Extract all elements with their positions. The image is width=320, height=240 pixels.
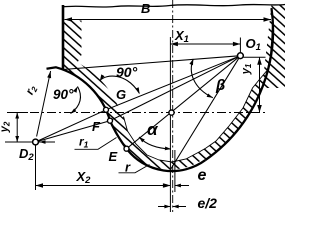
- right wall arc up to top: [205, 8, 273, 160]
- svg-text:G: G: [116, 87, 126, 102]
- left 90 deg angle arc: [71, 87, 81, 114]
- svg-text:B: B: [141, 1, 150, 16]
- dimension e outside arrows: [157, 185, 170, 187]
- radius r2 arrow from O2 to arc: [37, 71, 51, 137]
- point G: [104, 107, 109, 112]
- thin inner boundary of removed-stock crescent: [124, 8, 273, 162]
- svg-text:90°: 90°: [116, 64, 138, 80]
- hatched material section band along profile: [63, 8, 273, 169]
- ray O1 through C to E: [127, 56, 241, 149]
- svg-text:e: e: [198, 167, 207, 184]
- svg-text:F: F: [92, 119, 101, 134]
- wavy broken-out top edge: [62, 5, 285, 8]
- svg-text:90°: 90°: [53, 87, 74, 102]
- angle alpha arc: [139, 137, 171, 149]
- horizontal dash-dot line through wheel center level: [7, 112, 28, 114]
- center D2: [33, 139, 39, 145]
- extension line above O1: [239, 38, 241, 53]
- dimension X1 line: [170, 43, 240, 45]
- tick at O1 level: [244, 56, 266, 58]
- dimension X2 line: [36, 185, 171, 187]
- ray O1 to F: [110, 56, 240, 121]
- groove arc r from E around bottom: [127, 149, 206, 171]
- svg-text:y2: y2: [0, 121, 12, 133]
- svg-text:β: β: [215, 77, 225, 94]
- vertical line through groove deepest point: [169, 37, 171, 212]
- ray O2 to F: [36, 121, 111, 142]
- fillet arc r1 from F to E: [110, 121, 127, 149]
- right 90 deg angle arc: [100, 76, 140, 93]
- dimension y2 vertical: [16, 113, 18, 143]
- dimension e/2 outside arrows: [158, 206, 170, 208]
- horizontal line at O2 level with arrow: [5, 141, 55, 143]
- ray O2 to G: [36, 110, 107, 142]
- ray O1 to groove bottom T: [171, 56, 241, 170]
- wheel center point C on axis: [169, 110, 174, 115]
- center O1: [238, 53, 244, 59]
- svg-text:e/2: e/2: [198, 195, 218, 211]
- tooth back arc r2 from free end through tip to F: [47, 67, 111, 120]
- ray O1 to tooth tip: [63, 56, 240, 70]
- dimension B line: [65, 19, 272, 21]
- vertical extension below O2: [35, 145, 37, 190]
- svg-text:E: E: [109, 149, 118, 164]
- svg-text:α: α: [147, 120, 159, 139]
- point F: [108, 118, 113, 123]
- short vertical line e offset right: [174, 150, 176, 192]
- hatched band top-right corner: [262, 5, 285, 88]
- left tooth front face wall: [62, 5, 65, 70]
- dimension y1 vertical: [259, 57, 261, 112]
- angle beta arc: [191, 59, 212, 98]
- point E: [124, 146, 129, 151]
- vertical axis centerline (dash-dot): [172, 0, 174, 212]
- ray O1 to G: [106, 56, 240, 110]
